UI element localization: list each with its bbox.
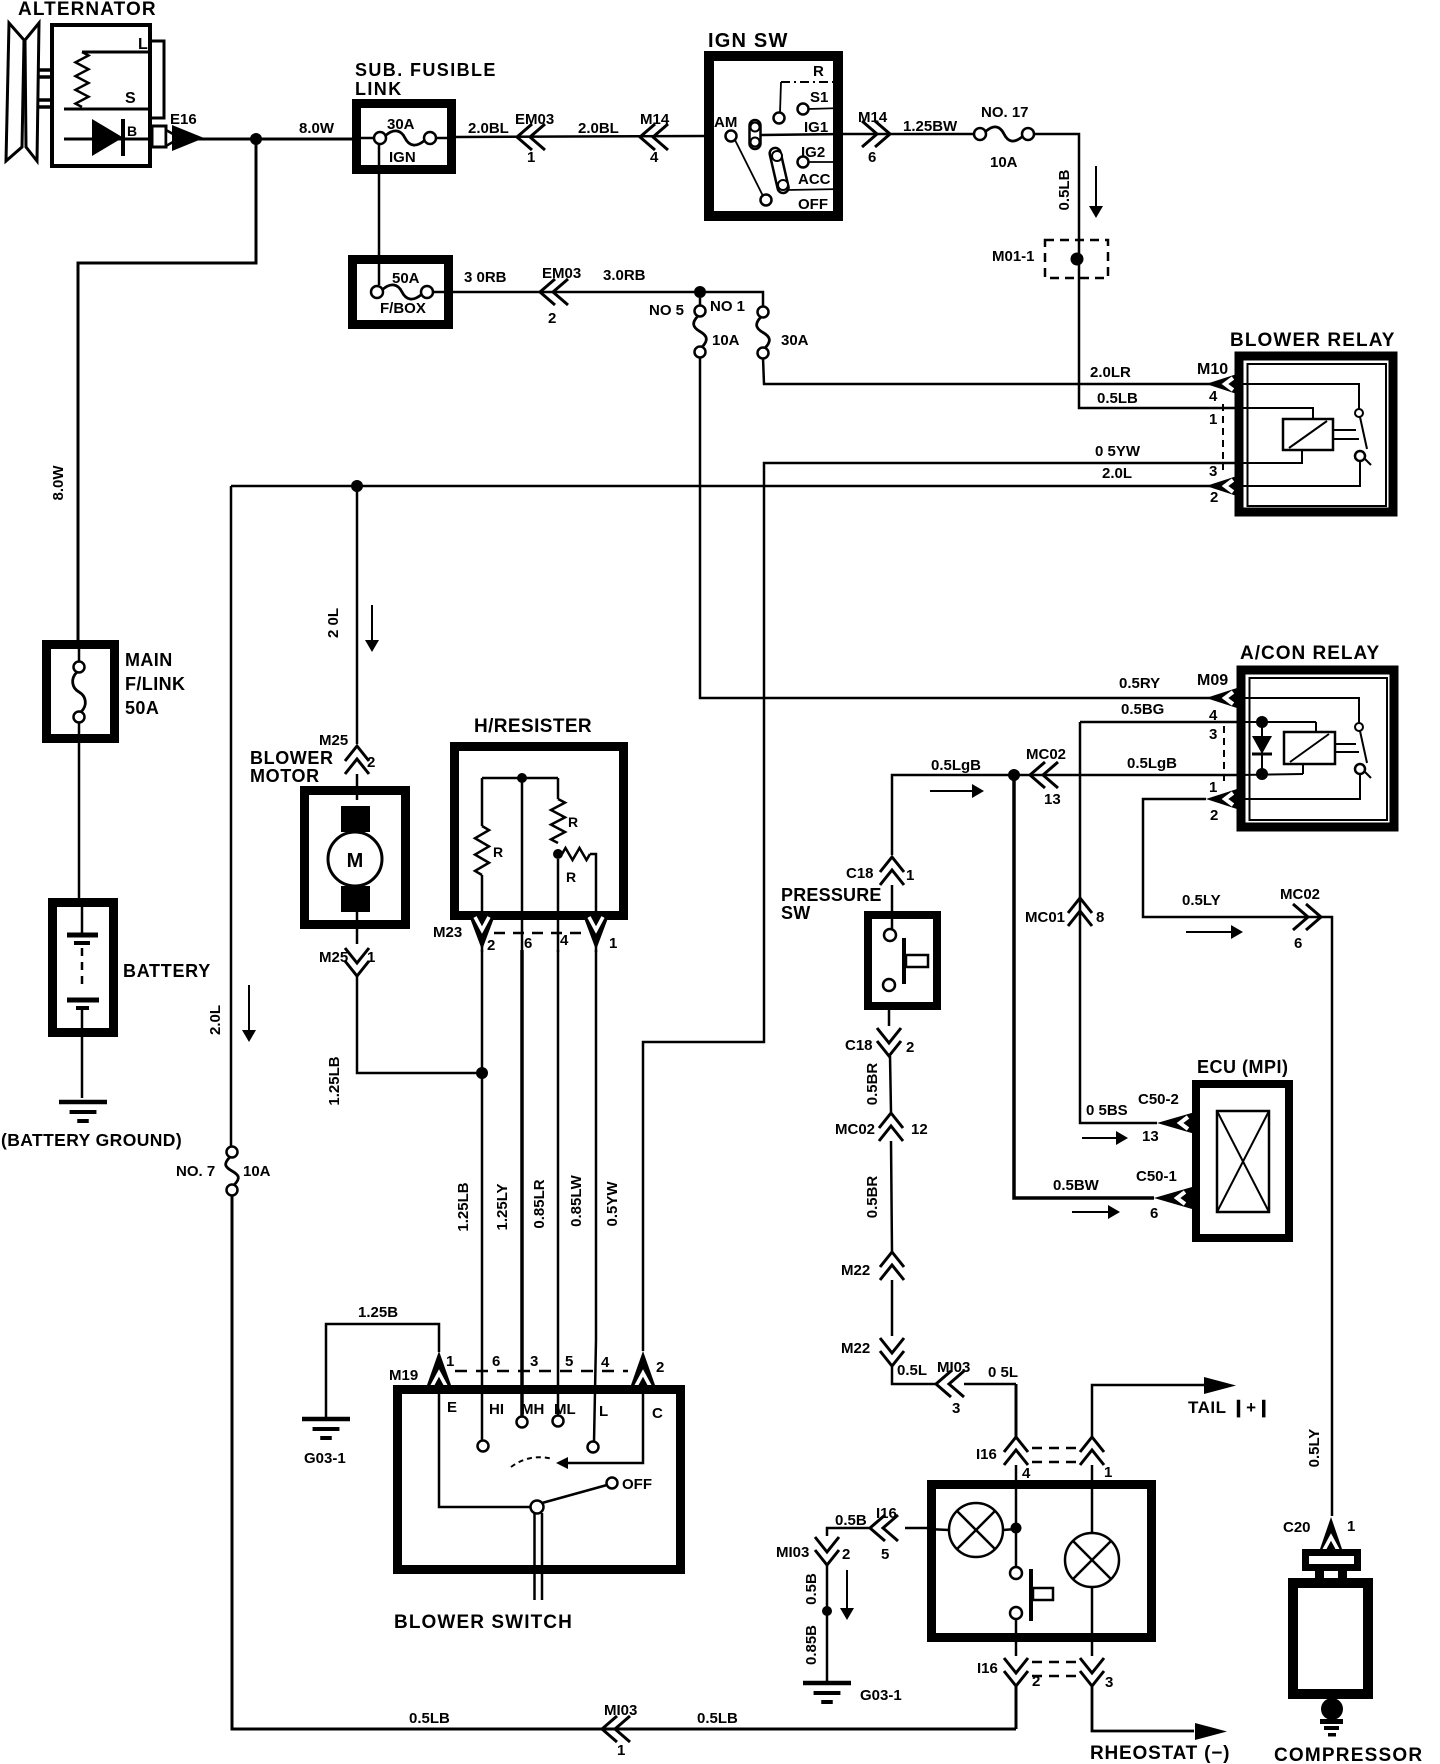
connector MC01 pin 8 — [1068, 898, 1092, 913]
svg-text:1: 1 — [367, 949, 375, 966]
junction node right resistor — [553, 849, 563, 859]
svg-text:MH: MH — [521, 1401, 544, 1418]
blower switch E wire to pivot — [439, 1385, 531, 1507]
svg-text:0 5BS: 0 5BS — [1086, 1102, 1128, 1119]
svg-text:G03-1: G03-1 — [304, 1450, 346, 1467]
svg-text:4: 4 — [1209, 388, 1218, 405]
a/con relay switch to pin2 wire — [1240, 774, 1360, 799]
svg-text:3: 3 — [1209, 726, 1217, 743]
wire 8.0W down-left to main fusible link — [78, 139, 256, 642]
svg-text:1: 1 — [1209, 411, 1217, 428]
pressure switch contacts — [884, 929, 896, 941]
connector I16 dashed links bottom — [1032, 1661, 1078, 1664]
svg-text:MC02: MC02 — [1280, 886, 1320, 903]
blower relay coil to pin3 wire — [1240, 450, 1302, 463]
flow arrow down 2.0L blower motor — [371, 605, 373, 642]
svg-text:NO. 17: NO. 17 — [981, 104, 1029, 121]
svg-text:M01-1: M01-1 — [992, 248, 1035, 265]
connector MI03 pin 3 — [936, 1371, 951, 1397]
svg-text:TAIL ❙+❙: TAIL ❙+❙ — [1188, 1398, 1271, 1418]
svg-text:R: R — [813, 63, 824, 80]
connector MI03 pin 2 — [815, 1550, 839, 1565]
svg-text:NO 1: NO 1 — [710, 298, 745, 315]
junction node 1.25LB — [476, 1067, 488, 1079]
connector M23 dashed line — [494, 932, 586, 935]
svg-text:0.5RY: 0.5RY — [1119, 675, 1160, 692]
connector M22 upper — [880, 1252, 904, 1267]
wire between M22 connectors — [891, 1280, 894, 1336]
svg-text:10A: 10A — [712, 332, 740, 349]
blower switch wiper C arm — [568, 1385, 643, 1463]
blower relay switch contact top — [1355, 409, 1363, 417]
wire 0.5LB fuse NO.17 to M01-1 and blower relay pin 1 — [1034, 134, 1240, 408]
wire to TAIL lamp feed — [1092, 1385, 1204, 1437]
svg-text:3: 3 — [1209, 463, 1217, 480]
svg-text:2.0LR: 2.0LR — [1090, 364, 1131, 381]
blower relay pin 2 arrow — [1206, 475, 1240, 497]
ign sw contact bridge lower — [769, 147, 790, 194]
connector M14 pin 4 — [640, 124, 655, 150]
svg-text:2.0L: 2.0L — [1102, 465, 1132, 482]
battery ground symbol — [59, 1100, 107, 1105]
ground G03-1 illumination — [803, 1681, 851, 1686]
fuse 50A — [371, 286, 383, 298]
svg-text:2: 2 — [842, 1546, 850, 1563]
svg-text:10A: 10A — [243, 1163, 271, 1180]
flow arrow down 0.5B — [846, 1570, 848, 1610]
wire 2.0L down to fuse NO. 7 — [230, 486, 233, 1147]
junction node lamp switch — [1011, 1523, 1022, 1534]
svg-text:4: 4 — [1022, 1465, 1031, 1482]
svg-text:R: R — [568, 814, 578, 830]
junction node resistor bus — [517, 773, 527, 783]
svg-text:50A: 50A — [125, 698, 159, 718]
svg-text:E: E — [447, 1399, 457, 1416]
illumination lamp left — [949, 1503, 1003, 1557]
wire right lamp to I16 pin 3 — [1091, 1587, 1094, 1656]
ign sw rotary contact arm to OFF — [735, 140, 763, 196]
svg-text:10A: 10A — [990, 154, 1018, 171]
wire 0.5BR down to MC02 pin 12 — [890, 1056, 891, 1112]
svg-text:1: 1 — [617, 1742, 625, 1759]
a/con relay coil — [1315, 722, 1317, 732]
wire 2.0L main feed to blower relay pin 2 — [231, 485, 1210, 488]
blower switch lever to OFF — [542, 1485, 607, 1503]
wire 2.0L down to blower motor — [356, 486, 359, 744]
svg-text:MC01: MC01 — [1025, 909, 1065, 926]
blower motor M symbol — [341, 806, 370, 832]
connector E16 — [152, 126, 166, 147]
blower motor box — [305, 791, 406, 925]
resistor R horizontal — [562, 848, 590, 860]
svg-text:BLOWER: BLOWER — [250, 748, 334, 768]
junction node 0.5LgB / 0.5BW — [1008, 769, 1020, 781]
svg-text:0 5L: 0 5L — [988, 1364, 1018, 1381]
wire 1.25LY resistor pin6 to blower switch MH — [520, 950, 524, 1417]
connector EM03 pin 2 — [540, 279, 555, 305]
blower relay switch to pin2 wire — [1240, 461, 1360, 486]
flow arrow right 0.5BW — [1072, 1211, 1110, 1213]
flow arrow right 0.5BS — [1082, 1137, 1118, 1139]
svg-text:C18: C18 — [846, 865, 874, 882]
svg-text:0.5LgB: 0.5LgB — [931, 757, 981, 774]
svg-text:M14: M14 — [640, 111, 670, 128]
ECU box — [1196, 1084, 1289, 1238]
svg-text:30A: 30A — [781, 332, 809, 349]
connector I16 pin 3 — [1080, 1671, 1104, 1686]
svg-text:0.5B: 0.5B — [835, 1512, 867, 1529]
ECU connector C50-1 pin 6 arrow — [1154, 1187, 1192, 1209]
svg-text:0.5LY: 0.5LY — [1182, 892, 1221, 909]
svg-text:M23: M23 — [433, 924, 462, 941]
compressor magnetic clutch symbol — [1306, 1553, 1358, 1568]
arrow to RHEOSTAT — [1195, 1723, 1227, 1740]
sub fusible link box — [357, 104, 452, 170]
svg-text:A/CON RELAY: A/CON RELAY — [1240, 643, 1380, 664]
svg-text:8: 8 — [1096, 909, 1104, 926]
wire I16 pin2 to bottom rail — [1015, 1686, 1018, 1729]
svg-text:13: 13 — [1044, 791, 1061, 808]
wire 0.5L to MI03 pin 3 and lamp unit — [892, 1366, 936, 1384]
svg-text:EM03: EM03 — [542, 265, 581, 282]
svg-text:0 5YW: 0 5YW — [1095, 443, 1141, 460]
svg-text:C50-2: C50-2 — [1138, 1091, 1179, 1108]
connector EM03 pin 1 — [517, 124, 532, 150]
flow arrow down 2.0L battery feed — [248, 985, 250, 1032]
connector M25 pin 1 — [345, 961, 369, 976]
battery cell symbol — [81, 903, 84, 933]
svg-text:M19: M19 — [389, 1367, 418, 1384]
connector M23 pin 2 arrow — [470, 918, 494, 950]
wire pressure switch to C18 pin 2 — [888, 1010, 891, 1026]
svg-text:0.5LB: 0.5LB — [409, 1710, 450, 1727]
svg-text:M10: M10 — [1197, 361, 1228, 378]
resistor pin 4 wire — [557, 859, 560, 952]
blower relay internal wire pin1 to coil — [1240, 408, 1313, 419]
svg-text:0.5YW: 0.5YW — [604, 1181, 621, 1227]
wire 0.5B to MI03 pin 2 — [827, 1528, 870, 1536]
svg-text:1: 1 — [906, 867, 914, 884]
resistor network top bus — [482, 777, 558, 780]
svg-text:M25: M25 — [319, 949, 348, 966]
blower switch box — [398, 1390, 681, 1570]
wire blower motor output — [356, 912, 359, 944]
svg-text:2.0BL: 2.0BL — [468, 120, 509, 137]
wire 0.5BW junction to ECU C50-1 — [1014, 775, 1154, 1198]
blower switch contact HI — [478, 1441, 489, 1452]
flow arrow right 0.5LY — [1186, 931, 1233, 933]
blower switch contact L — [588, 1442, 599, 1453]
svg-text:F/LINK: F/LINK — [125, 674, 185, 694]
a/con relay switch contact top — [1355, 723, 1363, 731]
svg-text:RHEOSTAT (−): RHEOSTAT (−) — [1090, 1743, 1230, 1764]
svg-text:OFF: OFF — [798, 196, 828, 213]
wire 0.5YW from blower switch C to blower relay pin 3 — [643, 463, 1240, 1351]
svg-text:COMPRESSOR: COMPRESSOR — [1274, 1745, 1423, 1764]
joint connector M01-1 — [1045, 240, 1108, 278]
svg-text:BLOWER SWITCH: BLOWER SWITCH — [394, 1612, 573, 1633]
connector M23 pin 1 arrow — [584, 918, 608, 950]
svg-text:0.85B: 0.85B — [803, 1625, 820, 1665]
svg-text:0.5BG: 0.5BG — [1121, 701, 1164, 718]
blower relay coil — [1283, 419, 1333, 450]
connector M22 lower — [880, 1351, 904, 1366]
svg-text:1: 1 — [446, 1353, 454, 1370]
svg-text:S: S — [125, 90, 136, 107]
svg-text:IGN: IGN — [389, 149, 416, 166]
svg-text:3: 3 — [1105, 1674, 1113, 1691]
connector MC02 pin 12 — [879, 1113, 903, 1128]
svg-text:3: 3 — [530, 1353, 538, 1370]
svg-text:0.5BR: 0.5BR — [864, 1176, 881, 1219]
svg-text:SUB. FUSIBLE: SUB. FUSIBLE — [355, 60, 497, 80]
svg-text:I16: I16 — [977, 1660, 998, 1677]
wire 0.5BG a/con relay pin3 to MC01 — [1080, 721, 1240, 724]
fuse 30A sub fusible link — [357, 137, 374, 140]
svg-text:M14: M14 — [858, 109, 888, 126]
svg-text:1.25B: 1.25B — [358, 1304, 398, 1321]
svg-text:0.5BR: 0.5BR — [864, 1063, 881, 1106]
svg-text:0.5LY: 0.5LY — [1306, 1429, 1323, 1468]
connector C18 pin 1 — [880, 857, 904, 872]
svg-text:ACC: ACC — [798, 171, 831, 188]
svg-text:6: 6 — [492, 1353, 500, 1370]
svg-text:2.0BL: 2.0BL — [578, 120, 619, 137]
wire illumination switch to I16 pin 2 — [1015, 1619, 1018, 1656]
svg-text:2: 2 — [548, 310, 556, 327]
svg-text:4: 4 — [560, 932, 569, 949]
wire 2.0L fuse NO.7 down to bottom rail — [232, 1195, 1016, 1729]
resistor R left — [481, 778, 484, 826]
svg-text:1.25LB: 1.25LB — [455, 1182, 472, 1231]
wire 2.0LR fuse NO 1 to blower relay pin 4 — [763, 358, 1210, 384]
wire 8.0W alternator B to fusible link — [197, 138, 352, 141]
svg-text:8.0W: 8.0W — [50, 465, 67, 501]
svg-text:2: 2 — [1210, 489, 1218, 506]
connector I16 pin 4 — [1004, 1437, 1028, 1452]
wire 0.5LgB pressure switch to a/con relay pin 1 — [892, 775, 1240, 855]
svg-text:0.5LB: 0.5LB — [1097, 390, 1138, 407]
svg-text:0.5L: 0.5L — [897, 1362, 927, 1379]
svg-text:MI03: MI03 — [937, 1359, 970, 1376]
junction node 0.85B — [822, 1606, 832, 1616]
svg-text:MI03: MI03 — [604, 1702, 637, 1719]
svg-text:2.0L: 2.0L — [207, 1005, 224, 1035]
wire 0.5B/0.85B down to ground — [826, 1565, 829, 1681]
svg-text:HI: HI — [489, 1401, 504, 1418]
blower switch contact MH — [517, 1417, 528, 1428]
svg-text:BLOWER RELAY: BLOWER RELAY — [1230, 330, 1396, 351]
svg-text:M22: M22 — [841, 1340, 870, 1357]
ECU connector C50-2 pin 13 arrow — [1157, 1112, 1195, 1134]
svg-text:C18: C18 — [845, 1037, 873, 1054]
svg-text:4: 4 — [601, 1354, 610, 1371]
svg-text:MC02: MC02 — [1026, 746, 1066, 763]
flow arrow right 0.5LgB — [930, 790, 974, 792]
connector I16 pin 1 — [1080, 1437, 1104, 1452]
connector M19 dashed line — [455, 1370, 628, 1373]
svg-text:0.5LgB: 0.5LgB — [1127, 755, 1177, 772]
junction node 2.0L to blower motor — [351, 480, 363, 492]
svg-text:8.0W: 8.0W — [299, 120, 335, 137]
svg-text:3 0RB: 3 0RB — [464, 269, 507, 286]
a/con relay internal pin4 to switch — [1240, 698, 1359, 723]
svg-text:6: 6 — [1150, 1205, 1158, 1222]
svg-text:NO. 7: NO. 7 — [176, 1163, 215, 1180]
svg-text:ECU (MPI): ECU (MPI) — [1197, 1057, 1289, 1077]
svg-text:S1: S1 — [810, 89, 828, 106]
svg-text:0.85LW: 0.85LW — [568, 1174, 585, 1227]
wire to rheostat — [1092, 1686, 1194, 1731]
svg-text:2: 2 — [487, 937, 495, 954]
wire main f/link to battery — [78, 743, 81, 898]
a/con relay box — [1241, 670, 1394, 827]
svg-text:R: R — [493, 844, 503, 860]
svg-text:1: 1 — [1347, 1518, 1355, 1535]
arrow to TAIL — [1204, 1377, 1236, 1394]
connector M19 pin 1 arrow — [427, 1351, 451, 1385]
svg-text:1: 1 — [527, 149, 535, 166]
ground G03-1 at blower switch — [302, 1417, 350, 1422]
svg-text:2: 2 — [1210, 807, 1218, 824]
svg-text:6: 6 — [524, 935, 532, 952]
pressure switch box — [868, 915, 937, 1006]
svg-text:1.25BW: 1.25BW — [903, 118, 958, 135]
resistor middle wire pin 6 — [521, 778, 524, 952]
svg-text:M25: M25 — [319, 732, 348, 749]
svg-text:5: 5 — [565, 1353, 573, 1370]
svg-text:2 0L: 2 0L — [325, 608, 342, 638]
wire IG1 to NO.17 fuse — [843, 133, 974, 136]
wire 3.0RB fuse box to junction — [453, 291, 700, 294]
wire lamp left to I16 pin 5 — [927, 1529, 949, 1530]
svg-text:PRESSURE: PRESSURE — [781, 885, 882, 905]
blower switch pivot — [531, 1501, 544, 1514]
a/con relay pin 2 arrow — [1206, 788, 1240, 810]
ign sw contact bridge upper — [750, 120, 761, 149]
svg-text:0.5LB: 0.5LB — [697, 1710, 738, 1727]
svg-text:5: 5 — [881, 1546, 889, 1563]
svg-text:EM03: EM03 — [515, 111, 554, 128]
svg-text:I16: I16 — [976, 1446, 997, 1463]
svg-text:1: 1 — [1104, 1464, 1112, 1481]
alternator U1 box — [52, 25, 150, 166]
svg-text:1.25LY: 1.25LY — [494, 1184, 511, 1231]
fuse box 50A F/BOX — [353, 260, 449, 325]
svg-text:L: L — [138, 36, 148, 53]
wire junction to NO 1 fuse — [700, 292, 763, 307]
svg-text:3: 3 — [952, 1400, 960, 1417]
connector MC02 pin 13 — [1030, 762, 1045, 788]
svg-text:3.0RB: 3.0RB — [603, 267, 646, 284]
illumination lamp right — [1065, 1533, 1119, 1587]
svg-text:SW: SW — [781, 903, 810, 923]
wire 0.5RY fuse NO 5 to a/con relay pin 4 — [700, 357, 1210, 698]
svg-text:G03-1: G03-1 — [860, 1687, 902, 1704]
wire 2.0BL fusible link to ignition switch — [456, 136, 704, 137]
svg-text:H/RESISTER: H/RESISTER — [474, 716, 592, 737]
svg-text:C: C — [652, 1405, 663, 1422]
wire 1.25LB resistor pin2 to blower switch HI — [481, 950, 484, 1440]
a/con relay coil bottom to pin1 wire — [1302, 764, 1304, 774]
svg-text:I16: I16 — [876, 1505, 897, 1522]
connector I16 pin 2 — [1004, 1671, 1028, 1686]
svg-text:NO 5: NO 5 — [649, 302, 684, 319]
svg-text:2: 2 — [367, 754, 375, 771]
svg-text:1: 1 — [1209, 779, 1217, 796]
connector I16 dashed links top — [1032, 1447, 1078, 1450]
main fusible link fuse element — [74, 662, 85, 673]
svg-text:12: 12 — [911, 1121, 928, 1138]
resistor R upper right — [557, 778, 560, 799]
svg-text:MAIN: MAIN — [125, 650, 173, 670]
connector M25 pin 2 — [345, 746, 369, 761]
blower relay pin 4 arrow — [1206, 373, 1240, 395]
svg-text:6: 6 — [868, 149, 876, 166]
svg-text:IGN SW: IGN SW — [708, 30, 789, 52]
wire MC01 down to ECU C50-2 — [1080, 722, 1157, 1123]
wire 0.85LR resistor pin4 to blower switch ML — [557, 950, 560, 1416]
a/con relay diode — [1261, 722, 1263, 736]
blower relay coil actuator links — [1333, 429, 1356, 431]
connector MC02 pin 6 — [1306, 904, 1321, 930]
battery box — [53, 903, 114, 1033]
svg-text:F/BOX: F/BOX — [380, 300, 426, 317]
svg-text:1: 1 — [609, 935, 617, 952]
svg-text:L: L — [599, 1403, 608, 1420]
svg-text:6: 6 — [1294, 935, 1302, 952]
a/con relay pin 4 arrow — [1206, 687, 1240, 709]
ECU internal block — [1217, 1111, 1269, 1212]
connector C20 pin 1 — [1320, 1517, 1342, 1549]
wire 1.25B ground link to blower switch E — [326, 1324, 439, 1417]
junction node at alternator output — [250, 133, 262, 145]
main fusible link box — [47, 645, 115, 739]
svg-text:C50-1: C50-1 — [1136, 1168, 1177, 1185]
blower switch handle — [533, 1513, 536, 1600]
svg-text:4: 4 — [650, 149, 659, 166]
a/con relay pin3 wire and junction — [1240, 721, 1316, 723]
a/con relay armature and lower contact — [1360, 731, 1367, 763]
illumination lamp box — [932, 1485, 1152, 1638]
svg-text:1.25LB: 1.25LB — [326, 1056, 343, 1105]
flow arrow down 0.5LB — [1095, 166, 1097, 208]
heater resistor box — [455, 747, 624, 916]
svg-text:OFF: OFF — [622, 1476, 652, 1493]
illumination switch contacts — [1015, 1528, 1018, 1567]
svg-text:AM: AM — [714, 114, 737, 131]
svg-text:MOTOR: MOTOR — [250, 766, 320, 786]
blower switch contact ML — [553, 1416, 564, 1427]
connector I16 pin 5 — [870, 1515, 885, 1541]
alternator pulley — [6, 23, 24, 161]
svg-text:B: B — [127, 123, 137, 139]
wire lamp to switch node — [1003, 1529, 1016, 1530]
a/con relay dashed boundary — [1223, 726, 1225, 786]
svg-text:ALTERNATOR: ALTERNATOR — [18, 0, 157, 20]
svg-text:0.85LR: 0.85LR — [531, 1179, 548, 1228]
ignition switch box — [709, 56, 838, 216]
svg-text:E16: E16 — [170, 111, 197, 128]
wire 1.25LB blower motor to H/Resister pin 2 junction — [357, 976, 478, 1073]
blower relay connector dashed boundary — [1222, 404, 1224, 470]
blower relay box — [1239, 356, 1393, 512]
wire from 30A fuse down to fuse box — [378, 144, 381, 285]
a/con relay junction pin1 — [1256, 768, 1268, 780]
wire 0.85LW resistor pin1 to blower switch L — [594, 950, 596, 1442]
wire 0.5BR to M22 — [891, 1141, 892, 1252]
connector MI03 pin 1 — [602, 1716, 617, 1742]
